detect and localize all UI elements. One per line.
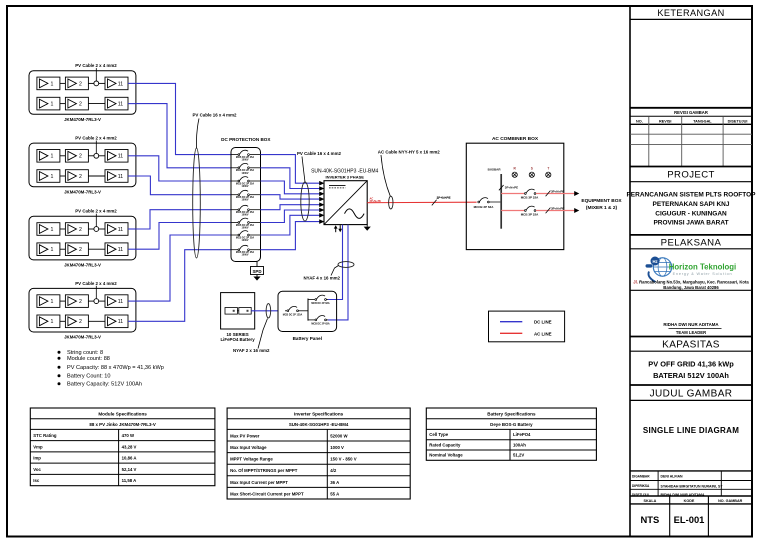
svg-text:Nominal Voltage: Nominal Voltage: [429, 453, 463, 458]
svg-text:51,2V: 51,2V: [513, 453, 524, 458]
svg-text:Max Input Current per MPPT: Max Input Current per MPPT: [230, 480, 288, 485]
svg-text:PV Cable 2 x 4 mm2: PV Cable 2 x 4 mm2: [75, 209, 117, 214]
svg-text:JUDUL GAMBAR: JUDUL GAMBAR: [650, 389, 733, 400]
svg-text:KODE: KODE: [684, 499, 695, 503]
svg-text:AC Cable NYY-HY 5 x 16 mm2: AC Cable NYY-HY 5 x 16 mm2: [378, 150, 440, 155]
svg-text:2: 2: [79, 319, 82, 325]
svg-text:TANGGAL: TANGGAL: [693, 119, 712, 123]
svg-text:Horizon Teknologi: Horizon Teknologi: [669, 262, 736, 271]
svg-text:2: 2: [79, 174, 82, 180]
svg-text:Bandung, Jawa Barat 40286: Bandung, Jawa Barat 40286: [663, 285, 719, 290]
svg-text:MCB DC 2P 63A: MCB DC 2P 63A: [311, 322, 329, 325]
svg-text:88 x PV Jinko JKM470M-7RL3-V: 88 x PV Jinko JKM470M-7RL3-V: [89, 422, 155, 427]
svg-text:1: 1: [51, 174, 54, 180]
svg-text:REVISI GAMBAR: REVISI GAMBAR: [674, 110, 708, 115]
svg-text:LiFePO4: LiFePO4: [513, 432, 531, 437]
svg-text:11: 11: [118, 102, 123, 108]
svg-text:LiFePO4 Battery: LiFePO4 Battery: [221, 337, 256, 342]
svg-text:(MIXER 1 & 2): (MIXER 1 & 2): [586, 205, 618, 211]
svg-text:R: R: [514, 166, 517, 170]
svg-text:PV Cable 16 x 4 mm2: PV Cable 16 x 4 mm2: [297, 151, 341, 156]
svg-text:2: 2: [79, 102, 82, 108]
svg-text:DIPERIKSA: DIPERIKSA: [632, 484, 650, 488]
svg-text:1000V: 1000V: [242, 159, 249, 162]
svg-text:Hz: Hz: [652, 259, 657, 264]
svg-text:150 V - 850 V: 150 V - 850 V: [330, 457, 356, 462]
svg-text:11: 11: [118, 227, 123, 233]
svg-text:AC LINE: AC LINE: [534, 331, 552, 336]
svg-text:11: 11: [118, 299, 123, 305]
svg-text:EQUIPMENT BOX: EQUIPMENT BOX: [581, 198, 622, 204]
svg-text:1000V: 1000V: [242, 172, 249, 175]
svg-text:MCCB 3P 63A: MCCB 3P 63A: [474, 205, 495, 209]
svg-text:Rated Capacity: Rated Capacity: [429, 442, 461, 447]
svg-text:MCB DC 2P 125A: MCB DC 2P 125A: [283, 313, 303, 316]
svg-text:1: 1: [51, 247, 54, 253]
svg-text:55 A: 55 A: [330, 491, 339, 496]
svg-text:MPPT Voltage Range: MPPT Voltage Range: [230, 457, 273, 462]
svg-text:DC PROTECTION BOX: DC PROTECTION BOX: [221, 137, 271, 142]
svg-text:Vmp: Vmp: [33, 444, 43, 449]
svg-text:PROJECT: PROJECT: [667, 169, 715, 180]
svg-text:Battery Panel: Battery Panel: [293, 336, 322, 341]
svg-text:2: 2: [79, 81, 82, 87]
svg-text:MCB 3P 32A: MCB 3P 32A: [521, 195, 539, 199]
svg-text:SPD: SPD: [252, 269, 261, 274]
svg-text:DC LINE: DC LINE: [534, 320, 552, 325]
svg-text:AC COMBINER BOX: AC COMBINER BOX: [492, 136, 539, 142]
svg-text:PV Cable 2 x 4 mm2: PV Cable 2 x 4 mm2: [75, 136, 117, 141]
svg-text:36 A: 36 A: [330, 480, 339, 485]
svg-text:11: 11: [118, 247, 123, 253]
svg-text:1000V: 1000V: [242, 254, 249, 257]
svg-text:No. Of MPPT/STRINGS per MPPT: No. Of MPPT/STRINGS per MPPT: [230, 468, 298, 473]
svg-text:1000V: 1000V: [242, 214, 249, 217]
svg-text:3P+N+PE: 3P+N+PE: [551, 206, 564, 210]
svg-text:100Ah: 100Ah: [513, 442, 526, 447]
svg-text:DISETUJUI: DISETUJUI: [728, 119, 748, 123]
svg-text:JKM470M-7RL3-V: JKM470M-7RL3-V: [64, 335, 101, 340]
svg-text:S: S: [531, 166, 533, 170]
svg-text:NO. GAMBAR: NO. GAMBAR: [718, 499, 743, 503]
svg-text:Imp: Imp: [33, 456, 41, 461]
svg-text:Module count: 88: Module count: 88: [67, 356, 110, 362]
svg-text:52,14 V: 52,14 V: [122, 467, 137, 472]
svg-text:Battery Capacity: 512V 100Ah: Battery Capacity: 512V 100Ah: [67, 382, 142, 388]
svg-text:INVERTER 3 PHASE: INVERTER 3 PHASE: [325, 174, 364, 179]
svg-text:1000V: 1000V: [242, 199, 249, 202]
svg-text:PV Cable 2 x 4 mm2: PV Cable 2 x 4 mm2: [75, 281, 117, 286]
svg-text:1000V: 1000V: [242, 227, 249, 230]
svg-text:PERANCANGAN SISTEM PLTS ROOFTO: PERANCANGAN SISTEM PLTS ROOFTOP: [626, 192, 756, 199]
svg-text:BUSBAR: BUSBAR: [488, 168, 502, 172]
svg-text:470 W: 470 W: [122, 433, 135, 438]
svg-text:KAPASITAS: KAPASITAS: [662, 340, 720, 351]
svg-text:SYAHIDAH BIRGITATUN NURAINI, S: SYAHIDAH BIRGITATUN NURAINI, ST: [661, 484, 724, 488]
svg-text:11,58 A: 11,58 A: [122, 478, 137, 483]
svg-text:Voc: Voc: [33, 467, 41, 472]
svg-text:PELAKSANA: PELAKSANA: [661, 238, 722, 249]
svg-text:PETERNAKAN SAPI KNJ: PETERNAKAN SAPI KNJ: [653, 201, 730, 208]
svg-text:4/2: 4/2: [330, 468, 337, 473]
svg-text:1000 V: 1000 V: [330, 445, 344, 450]
svg-text:3P+N+PE: 3P+N+PE: [551, 189, 564, 193]
svg-text:10 SERIES: 10 SERIES: [226, 332, 248, 337]
svg-text:T: T: [547, 166, 549, 170]
svg-text:RIDHA DWI NUR ADITAMA: RIDHA DWI NUR ADITAMA: [663, 322, 719, 327]
svg-text:Module Specifications: Module Specifications: [98, 411, 147, 416]
svg-text:11: 11: [118, 81, 123, 87]
svg-text:1: 1: [51, 102, 54, 108]
svg-text:11: 11: [118, 154, 123, 160]
svg-text:2: 2: [79, 154, 82, 160]
svg-text:MCB DC 2P 63A: MCB DC 2P 63A: [311, 302, 329, 305]
svg-text:1: 1: [51, 81, 54, 87]
svg-text:3P+N+PE: 3P+N+PE: [370, 199, 382, 203]
svg-text:JKM470M-7RL3-V: JKM470M-7RL3-V: [64, 189, 101, 194]
svg-text:1: 1: [51, 299, 54, 305]
svg-text:1000V: 1000V: [242, 185, 249, 188]
svg-text:Isc: Isc: [33, 478, 40, 483]
svg-text:DENI ALFIAN: DENI ALFIAN: [661, 475, 684, 479]
svg-text:PV Cable 2 x 4 mm2: PV Cable 2 x 4 mm2: [75, 63, 117, 68]
svg-text:2: 2: [79, 227, 82, 233]
svg-text:PV Cable 16 x 4 mm2: PV Cable 16 x 4 mm2: [193, 113, 237, 118]
svg-text:2: 2: [79, 299, 82, 305]
svg-text:Cell Type: Cell Type: [429, 432, 448, 437]
svg-text:1000V: 1000V: [242, 239, 249, 242]
svg-text:52000 W: 52000 W: [330, 433, 348, 438]
svg-text:PV OFF GRID 41,36 kWp: PV OFF GRID 41,36 kWp: [648, 359, 734, 368]
svg-text:MCB 3P 32A: MCB 3P 32A: [521, 212, 539, 216]
svg-text:1: 1: [51, 319, 54, 325]
svg-text:NTS: NTS: [641, 514, 660, 525]
svg-text:43,28 V: 43,28 V: [122, 444, 137, 449]
svg-text:NYAF 4 x 16 mm2: NYAF 4 x 16 mm2: [304, 275, 341, 280]
svg-text:11: 11: [118, 319, 123, 325]
svg-text:2: 2: [79, 247, 82, 253]
svg-text:BATERAI 512V 100Ah: BATERAI 512V 100Ah: [653, 371, 729, 380]
svg-text:PROVINSI JAWA BARAT: PROVINSI JAWA BARAT: [653, 220, 728, 227]
svg-text:JKM470M-7RL3-V: JKM470M-7RL3-V: [64, 263, 101, 268]
svg-text:SKALA: SKALA: [644, 499, 657, 503]
svg-text:1: 1: [51, 227, 54, 233]
svg-text:JKM470M-7RL3-V: JKM470M-7RL3-V: [64, 117, 101, 122]
svg-text:SUN-40K-SG01HP3 -EU-BM4: SUN-40K-SG01HP3 -EU-BM4: [289, 422, 349, 427]
svg-text:Inverter Specifications: Inverter Specifications: [294, 411, 344, 416]
svg-text:EL-001: EL-001: [674, 514, 705, 525]
svg-text:11: 11: [118, 174, 123, 180]
svg-text:3P+N+PE: 3P+N+PE: [437, 196, 451, 200]
svg-text:SINGLE LINE DIAGRAM: SINGLE LINE DIAGRAM: [643, 426, 739, 435]
svg-text:Max Input Voltage: Max Input Voltage: [230, 445, 267, 450]
svg-text:NYAF 2 x 16 mm2: NYAF 2 x 16 mm2: [233, 348, 270, 353]
svg-text:Energy & Water Solution: Energy & Water Solution: [673, 272, 733, 276]
svg-text:TEAM LEADER: TEAM LEADER: [676, 330, 706, 335]
svg-text:10,86 A: 10,86 A: [122, 456, 137, 461]
svg-text:Deye BOS-G Battery: Deye BOS-G Battery: [490, 422, 533, 427]
svg-text:CIGUGUR - KUNINGAN: CIGUGUR - KUNINGAN: [655, 210, 727, 217]
svg-text:DIGAMBAR: DIGAMBAR: [632, 475, 650, 479]
svg-text:REVISI: REVISI: [659, 119, 671, 123]
svg-text:PV Capacity: 88 x 470Wp = 41,3: PV Capacity: 88 x 470Wp = 41,36 kWp: [67, 365, 164, 371]
svg-text:Battery Specifications: Battery Specifications: [487, 411, 536, 416]
svg-text:Max Short-Circuit Current per: Max Short-Circuit Current per MPPT: [230, 491, 304, 496]
svg-text:STC Rating: STC Rating: [33, 433, 57, 438]
svg-text:Battery Count: 10: Battery Count: 10: [67, 374, 111, 380]
svg-text:1: 1: [51, 154, 54, 160]
svg-text:3P+N+PE: 3P+N+PE: [505, 186, 518, 190]
svg-text:Max PV Power: Max PV Power: [230, 433, 260, 438]
svg-text:NO.: NO.: [636, 119, 643, 123]
svg-text:KETERANGAN: KETERANGAN: [657, 8, 724, 18]
